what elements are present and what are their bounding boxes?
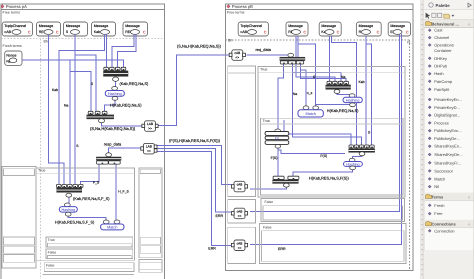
- svg-text:Bh: Bh: [228, 39, 232, 43]
- svg-text:False: False: [265, 200, 274, 204]
- svg-text:Cast: Cast: [434, 28, 443, 33]
- svg-text:Match: Match: [305, 112, 315, 116]
- svg-text:DHKey: DHKey: [434, 56, 447, 61]
- svg-text:<>: <>: [235, 56, 239, 60]
- svg-text:Message: Message: [94, 24, 109, 28]
- svg-text:Palette: Palette: [436, 3, 451, 8]
- svg-text:Match: Match: [434, 176, 445, 181]
- svg-text:F_S: F_S: [93, 181, 100, 185]
- svg-text:H(Kab,REQ,Na,S): H(Kab,REQ,Na,S): [110, 103, 142, 108]
- svg-text:Hashing: Hashing: [62, 208, 76, 212]
- svg-text:Container: Container: [434, 48, 452, 53]
- svg-text:DHPub: DHPub: [434, 64, 448, 69]
- svg-text:Process: Process: [434, 120, 448, 125]
- svg-text:PrivateKeyD...: PrivateKeyD...: [434, 105, 460, 110]
- svg-text:Nil: Nil: [434, 184, 439, 189]
- svg-text:<<: <<: [238, 246, 242, 250]
- svg-text:True: True: [38, 169, 45, 173]
- svg-text:Hash: Hash: [434, 71, 443, 76]
- svg-text:Connection: Connection: [434, 228, 454, 233]
- svg-text:n_s: n_s: [307, 91, 313, 95]
- svg-text:Free: Free: [434, 211, 443, 216]
- svg-text:SharedKeyEn...: SharedKeyEn...: [434, 144, 462, 149]
- svg-text:C: C: [143, 29, 146, 34]
- svg-text:Kab: Kab: [359, 80, 365, 84]
- svg-text:Message: Message: [125, 24, 140, 28]
- svg-text:LAB: LAB: [146, 145, 152, 149]
- svg-text:Process pB: Process pB: [232, 4, 253, 9]
- svg-text:cAB: cAB: [4, 30, 11, 34]
- svg-text:Bh: Bh: [44, 40, 48, 44]
- svg-text:req_data: req_data: [256, 47, 272, 52]
- svg-text:H(Kab,RES,Na,S,F(S)): H(Kab,RES,Na,S,F(S)): [309, 176, 349, 181]
- svg-text:DigitalSignat...: DigitalSignat...: [434, 113, 460, 118]
- svg-text:SharedKeyDe...: SharedKeyDe...: [434, 152, 462, 157]
- svg-text:True: True: [263, 119, 270, 123]
- svg-text:C: C: [377, 29, 380, 34]
- svg-text:PublickeyDe...: PublickeyDe...: [434, 136, 460, 141]
- svg-text:Connections: Connections: [432, 222, 457, 227]
- svg-text:H(Kab,REQ,Na,S): H(Kab,REQ,Na,S): [327, 108, 359, 113]
- svg-text:Behavioural ...: Behavioural ...: [432, 21, 459, 26]
- svg-text:PairSplit: PairSplit: [434, 87, 450, 92]
- svg-text:cAB: cAB: [234, 51, 240, 55]
- svg-text:Hashing: Hashing: [346, 98, 360, 102]
- svg-text:Match: Match: [107, 225, 117, 229]
- svg-text:Na: Na: [64, 103, 68, 107]
- svg-text:<<: <<: [238, 187, 242, 191]
- svg-text:(Kab,RES,Na,S,F_S): (Kab,RES,Na,S,F_S): [73, 196, 110, 201]
- svg-text:True: True: [48, 238, 55, 242]
- svg-text:<<: <<: [238, 214, 242, 218]
- svg-text:PrivateKeyEn...: PrivateKeyEn...: [434, 97, 462, 102]
- svg-text:cAB: cAB: [237, 241, 243, 245]
- svg-text:cAB: cAB: [240, 30, 247, 34]
- svg-text:Successor: Successor: [434, 168, 453, 173]
- svg-text:H_F_S: H_F_S: [118, 190, 129, 194]
- svg-text:False: False: [48, 250, 57, 254]
- svg-text:Fr..: Fr..: [407, 40, 412, 44]
- svg-text:Channel: Channel: [434, 35, 449, 40]
- svg-text:TcpipChannel: TcpipChannel: [240, 24, 262, 28]
- svg-text:False: False: [46, 264, 55, 268]
- svg-text:Free terms: Free terms: [3, 10, 21, 14]
- svg-text:C: C: [337, 29, 340, 34]
- svg-text:PublickeyEnc...: PublickeyEnc...: [434, 128, 461, 133]
- svg-text:Process pA: Process pA: [6, 4, 27, 9]
- svg-text:Message: Message: [321, 24, 336, 28]
- svg-text:cAB: cAB: [237, 210, 243, 214]
- svg-text:TcpipChannel: TcpipChannel: [4, 24, 26, 28]
- svg-text:F(S): F(S): [320, 154, 327, 158]
- svg-text:Message: Message: [359, 24, 374, 28]
- svg-text:C: C: [28, 29, 31, 34]
- svg-text:PairComp: PairComp: [434, 79, 453, 84]
- svg-text:>>: >>: [148, 127, 152, 131]
- svg-text:(F(S),H(Kab,RES,Na,S,F(S))): (F(S),H(Kab,RES,Na,S,F(S))): [169, 138, 221, 143]
- svg-text:(S,Na,H(Kab,REQ,Na,S)): (S,Na,H(Kab,REQ,Na,S)): [177, 43, 222, 48]
- svg-text:C: C: [303, 29, 306, 34]
- svg-text:Hashing: Hashing: [108, 92, 122, 96]
- svg-text:Message: Message: [66, 24, 81, 28]
- svg-text:F(S): F(S): [271, 156, 278, 160]
- svg-text:F(): F(): [275, 136, 279, 140]
- svg-text:Free terms: Free terms: [227, 10, 245, 14]
- svg-text:C: C: [264, 29, 267, 34]
- svg-text:C: C: [406, 29, 409, 34]
- svg-text:C: C: [56, 29, 59, 34]
- svg-text:<<: <<: [147, 149, 151, 153]
- svg-text:Terms: Terms: [432, 195, 444, 200]
- svg-text:ERR: ERR: [216, 214, 224, 218]
- svg-text:cAB: cAB: [237, 183, 243, 187]
- svg-text:Na: Na: [293, 92, 297, 96]
- svg-text:Message: Message: [288, 24, 303, 28]
- svg-text:Message: Message: [390, 24, 405, 28]
- svg-text:Message: Message: [39, 24, 54, 28]
- svg-text:resp_data: resp_data: [104, 141, 122, 146]
- svg-text:Operations: Operations: [434, 43, 454, 48]
- svg-text:Nonce: Nonce: [6, 53, 16, 57]
- svg-text:True: True: [260, 67, 267, 71]
- svg-text:ERR: ERR: [278, 247, 286, 251]
- svg-text:Kab: Kab: [94, 30, 100, 34]
- svg-text:Na: Na: [341, 75, 345, 79]
- svg-text:LAB: LAB: [147, 122, 153, 126]
- svg-text:SharedKeyFr...: SharedKeyFr...: [434, 160, 461, 165]
- svg-text:False: False: [263, 225, 272, 229]
- svg-text:(S,Na,H(Kab,REQ,Na,S)): (S,Na,H(Kab,REQ,Na,S)): [90, 126, 136, 131]
- svg-text:Fresh: Fresh: [434, 203, 444, 208]
- svg-text:Fresh terms: Fresh terms: [3, 44, 22, 48]
- svg-text:Kab: Kab: [52, 88, 58, 92]
- svg-text:(Kab,REQ,Na,S): (Kab,REQ,Na,S): [120, 81, 149, 86]
- svg-text:ERR: ERR: [208, 246, 216, 250]
- svg-text:H(Kab,RES,Na,S,F_S): H(Kab,RES,Na,S,F_S): [55, 219, 95, 224]
